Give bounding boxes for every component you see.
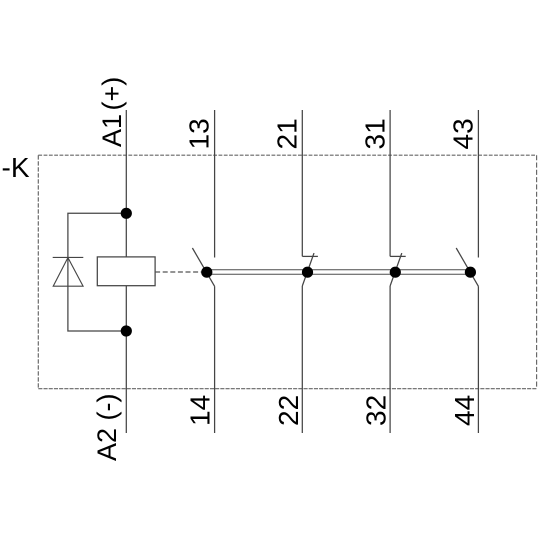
svg-text:-K: -K [2, 152, 30, 183]
svg-text:13: 13 [184, 118, 215, 149]
svg-text:22: 22 [273, 395, 304, 426]
svg-text:A1 (+): A1 (+) [97, 77, 127, 147]
svg-text:21: 21 [272, 118, 303, 149]
svg-text:32: 32 [361, 395, 392, 426]
svg-text:44: 44 [449, 395, 480, 426]
svg-text:A2 (-): A2 (-) [92, 394, 122, 462]
svg-text:43: 43 [448, 118, 479, 149]
svg-text:31: 31 [359, 118, 390, 149]
svg-text:14: 14 [185, 395, 216, 426]
